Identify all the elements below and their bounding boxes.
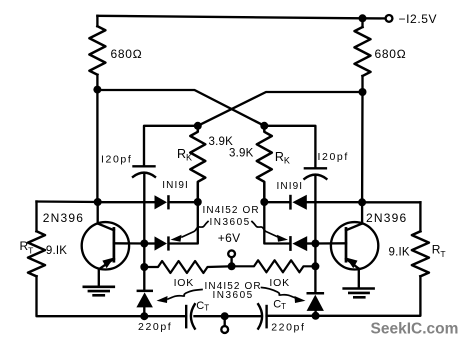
svg-text:−I2.5V: −I2.5V xyxy=(399,12,438,26)
svg-text:220pf: 220pf xyxy=(271,322,305,334)
wire right column 680-to-collector xyxy=(361,92,364,202)
wire right diode column xyxy=(314,244,316,293)
wire left column 680-to-collector xyxy=(96,90,98,202)
svg-text:RK: RK xyxy=(275,150,290,166)
svg-text:680Ω: 680Ω xyxy=(111,47,143,61)
svg-text:3.9K: 3.9K xyxy=(229,148,254,160)
wire left RT bottom xyxy=(37,276,145,316)
node bottom center xyxy=(221,312,229,320)
node right collector xyxy=(358,198,366,206)
leader arrow lower right xyxy=(262,288,306,304)
node right 680 top xyxy=(359,14,367,22)
svg-text:INI9I: INI9I xyxy=(277,181,304,192)
svg-text:IN3605: IN3605 xyxy=(213,290,254,301)
wire cross right-to-left xyxy=(198,92,363,126)
svg-text:IOK: IOK xyxy=(269,277,290,289)
wire row1 left xyxy=(98,201,155,203)
wire left collector to RT xyxy=(37,200,98,203)
capacitor 120pf left xyxy=(133,166,155,243)
leader arrow upper left xyxy=(171,222,209,242)
resistor 680ohm left xyxy=(89,26,105,74)
wire right 680 bottom xyxy=(361,76,363,92)
wire +6V stub xyxy=(230,257,232,266)
node right 3.9K bottom xyxy=(260,198,268,206)
resistor 10K right xyxy=(232,260,316,272)
node left 10K junction xyxy=(140,263,148,271)
wire row1 left diode-to-node xyxy=(170,201,198,203)
wire bottom terminal stub xyxy=(224,316,226,326)
terminal -12.5V xyxy=(386,15,393,22)
diode 1N4152 right row2 xyxy=(289,236,307,251)
svg-text:+6V: +6V xyxy=(218,231,241,245)
wire row1 right node-to-diode xyxy=(264,201,290,203)
wire bottom rail right segment xyxy=(267,315,316,317)
svg-text:680Ω: 680Ω xyxy=(375,47,407,61)
diode 1N4152 right bottom xyxy=(307,292,325,311)
wire left node down to row2 xyxy=(170,202,198,244)
resistor 3.9K right (RK) xyxy=(257,126,272,202)
wire cross left-to-right xyxy=(97,90,264,126)
wire row2 right anode xyxy=(307,242,315,244)
terminal bottom output xyxy=(221,326,228,333)
resistor 9.1K right xyxy=(412,231,429,276)
svg-text:2N396: 2N396 xyxy=(43,211,84,225)
ground left xyxy=(84,287,114,296)
leader arrow lower left xyxy=(157,290,203,304)
wire left RT top xyxy=(35,202,37,232)
wire row1 right diode-to-collector xyxy=(307,201,362,203)
node right 680 bottom xyxy=(359,88,367,96)
node left 3.9K bottom xyxy=(194,198,202,206)
diode 1N4152 left row2 xyxy=(155,236,170,250)
svg-text:CT: CT xyxy=(273,299,286,312)
svg-text:I20pf: I20pf xyxy=(101,154,132,166)
wire bottom rail center segment xyxy=(195,315,261,317)
svg-text:IN4I52 OR: IN4I52 OR xyxy=(203,205,260,216)
wire left diode column xyxy=(143,244,145,291)
leader arrow upper right xyxy=(252,222,288,242)
diode 1N191 left xyxy=(155,195,170,209)
wire right bottom diode to rail xyxy=(314,311,316,316)
svg-text:IN3605: IN3605 xyxy=(210,217,251,228)
svg-text:I20pf: I20pf xyxy=(318,151,349,163)
svg-text:2N396: 2N396 xyxy=(366,211,407,225)
svg-text:9.IK: 9.IK xyxy=(46,245,67,257)
node left 680 bottom xyxy=(93,86,101,94)
wire left 120pf branch xyxy=(144,126,198,166)
wire right node down to row2 xyxy=(264,202,290,244)
svg-text:220pf: 220pf xyxy=(138,321,172,333)
wire left bottom diode to rail xyxy=(143,307,145,316)
node left collector xyxy=(94,198,102,206)
node right 3.9K top xyxy=(260,122,268,130)
wire bottom rail left segment xyxy=(144,315,186,317)
svg-text:RK: RK xyxy=(177,147,192,163)
terminal +6V xyxy=(228,250,235,257)
resistor 9.1K left xyxy=(28,231,45,276)
node right base junction xyxy=(311,240,319,248)
resistor 680ohm right xyxy=(355,27,371,76)
transistor Q1 2N396 left xyxy=(82,202,145,287)
node left base junction xyxy=(140,240,148,248)
svg-text:RT: RT xyxy=(432,243,446,260)
transistor Q2 2N396 right xyxy=(315,202,378,288)
capacitor 120pf right xyxy=(304,168,326,243)
node left 3.9K top xyxy=(194,122,202,130)
wire right RT top xyxy=(419,202,421,231)
wire right 120pf branch xyxy=(264,126,315,168)
node right bottom xyxy=(312,312,320,320)
wire left 680 bottom xyxy=(96,75,98,90)
resistor 3.9K left (RK) xyxy=(190,126,205,202)
capacitor 220pf right (CT) xyxy=(258,304,266,328)
diode 1N4152 left bottom xyxy=(136,290,153,308)
wire row2 left anode xyxy=(144,242,154,244)
capacitor 220pf left (CT) xyxy=(186,304,195,328)
svg-text:IOK: IOK xyxy=(174,277,195,289)
svg-text:3.9K: 3.9K xyxy=(209,136,234,148)
wire top supply rail xyxy=(97,16,385,19)
wire right top stub xyxy=(361,18,363,27)
ground right xyxy=(344,289,374,298)
svg-text:SeekIC.com: SeekIC.com xyxy=(371,321,459,338)
svg-text:INI9I: INI9I xyxy=(162,180,189,191)
resistor 10K left xyxy=(144,261,231,273)
svg-text:9.IK: 9.IK xyxy=(389,247,410,259)
node left bottom xyxy=(140,312,148,320)
node right 10K junction xyxy=(311,262,319,270)
wire right RT bottom xyxy=(316,276,421,316)
diode 1N191 right xyxy=(289,195,307,210)
wire left top stub xyxy=(96,16,98,26)
svg-text:CT: CT xyxy=(196,300,209,313)
wire right collector to RT xyxy=(362,201,420,203)
node +6V junction xyxy=(228,262,236,270)
